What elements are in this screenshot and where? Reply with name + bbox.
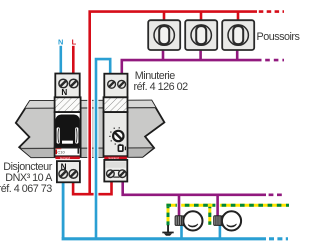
- svg-text:réf. 4 067 73: réf. 4 067 73: [0, 183, 52, 195]
- svg-text:L: L: [72, 38, 77, 47]
- svg-text:réf. 4 126 02: réf. 4 126 02: [134, 81, 189, 93]
- svg-text:N: N: [61, 88, 67, 97]
- svg-text:Poussoirs: Poussoirs: [257, 31, 301, 43]
- svg-text:N: N: [58, 38, 63, 47]
- svg-text:C10: C10: [57, 149, 65, 154]
- svg-text:legrand: legrand: [60, 156, 70, 160]
